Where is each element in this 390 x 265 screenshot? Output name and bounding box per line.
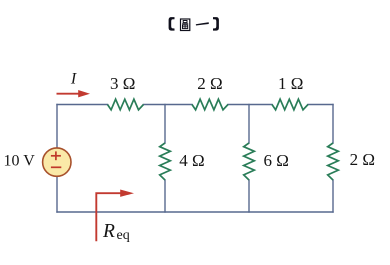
svg-text:R: R [102,221,115,242]
svg-text:10 V: 10 V [4,152,36,169]
svg-text:I: I [70,70,77,87]
svg-text:eq: eq [117,228,130,243]
svg-text:4 Ω: 4 Ω [179,151,204,170]
svg-text:2 Ω: 2 Ω [197,74,222,93]
svg-text:3 Ω: 3 Ω [110,74,135,93]
svg-text:6 Ω: 6 Ω [264,151,289,170]
svg-text:2 Ω: 2 Ω [350,150,375,169]
svg-text:1 Ω: 1 Ω [278,74,303,93]
